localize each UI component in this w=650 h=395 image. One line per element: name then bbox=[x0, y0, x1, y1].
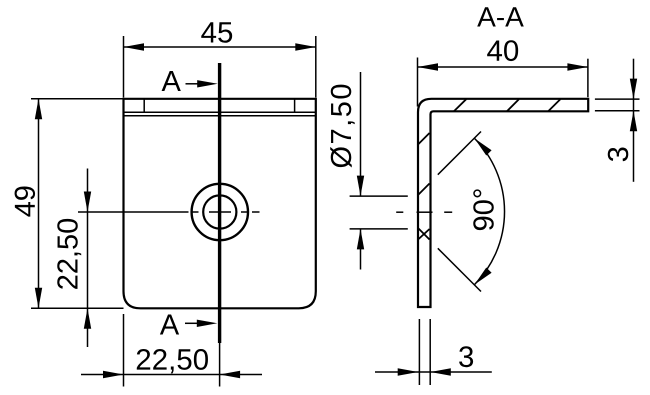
L profile bbox=[418, 99, 588, 307]
hole horizontal centerline bbox=[78, 211, 260, 213]
bend tangent line 1 bbox=[124, 111, 316, 113]
dimension 3 (bottom, thickness) bbox=[418, 319, 420, 385]
dimension 49 (left) bbox=[31, 98, 124, 100]
dimension 45 (top) bbox=[123, 36, 125, 98]
dimension 40 (top) bbox=[417, 58, 419, 107]
dimension 22,50 bottom (left edge to hole center) bbox=[123, 314, 125, 387]
hole centerline dashes bbox=[396, 211, 452, 213]
angle dimension 90 deg bbox=[438, 132, 481, 175]
dimension Ø7,50 bbox=[360, 72, 362, 196]
hole outer circle bbox=[192, 184, 248, 240]
section cutting line A-A bbox=[218, 63, 221, 343]
hole edge extension lines bbox=[350, 195, 408, 197]
label A bottom bbox=[160, 315, 179, 335]
label A top bbox=[162, 71, 181, 91]
bend tangent line 2 bbox=[124, 115, 316, 117]
dimension 3 (top right, thickness) bbox=[595, 98, 640, 100]
right relief tick bbox=[294, 99, 296, 112]
hole inner circle bbox=[203, 195, 236, 228]
left relief tick bbox=[143, 99, 145, 112]
hatching bbox=[418, 99, 561, 240]
dimension 22,50 vertical (hole to bottom) bbox=[87, 169, 89, 348]
plate outline bbox=[124, 99, 316, 308]
